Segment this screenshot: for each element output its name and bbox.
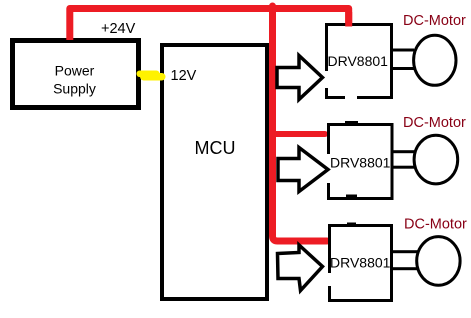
motor M1 <box>414 35 456 85</box>
wire red stub into U2 top <box>345 12 352 27</box>
wire branch to DRV8801 #2 (red) <box>273 131 326 137</box>
svg-text:MCU: MCU <box>195 138 236 158</box>
svg-text:Supply: Supply <box>53 81 96 97</box>
wire +24V rail (red): PS top, along top, down into DRV8801 #1 <box>70 9 349 41</box>
svg-text:DRV8801: DRV8801 <box>330 155 391 171</box>
svg-text:DRV8801: DRV8801 <box>330 255 391 271</box>
motor M3 <box>417 237 460 286</box>
wires U2 to motor M1 <box>391 49 414 71</box>
MCU U1 <box>162 45 267 299</box>
power supply PS1 <box>13 41 139 108</box>
motor M2 <box>414 135 458 184</box>
svg-text:DC-Motor: DC-Motor <box>404 217 467 233</box>
arrow MCU to U3 <box>278 148 328 192</box>
wire 24V bus (red vertical right of MCU) with branch to DRV8801 #3 <box>273 6 328 241</box>
arrow MCU to U4 <box>278 245 323 291</box>
driver U2 DRV8801 (top) <box>323 25 392 101</box>
wire 12V (yellow) PS to MCU <box>137 71 166 81</box>
wires U4 to motor M3 <box>392 250 418 270</box>
arrow MCU to U2 <box>277 56 323 100</box>
wires U3 to motor M2 <box>391 150 416 169</box>
svg-text:+24V: +24V <box>101 21 136 37</box>
svg-text:DC-Motor: DC-Motor <box>403 115 466 131</box>
driver U4 DRV8801 (bottom) <box>327 223 392 301</box>
svg-text:Power: Power <box>55 63 95 79</box>
driver U3 DRV8801 (middle) <box>326 121 393 199</box>
svg-text:DRV8801: DRV8801 <box>328 53 389 69</box>
svg-text:DC-Motor: DC-Motor <box>403 13 466 29</box>
svg-text:12V: 12V <box>171 68 197 84</box>
